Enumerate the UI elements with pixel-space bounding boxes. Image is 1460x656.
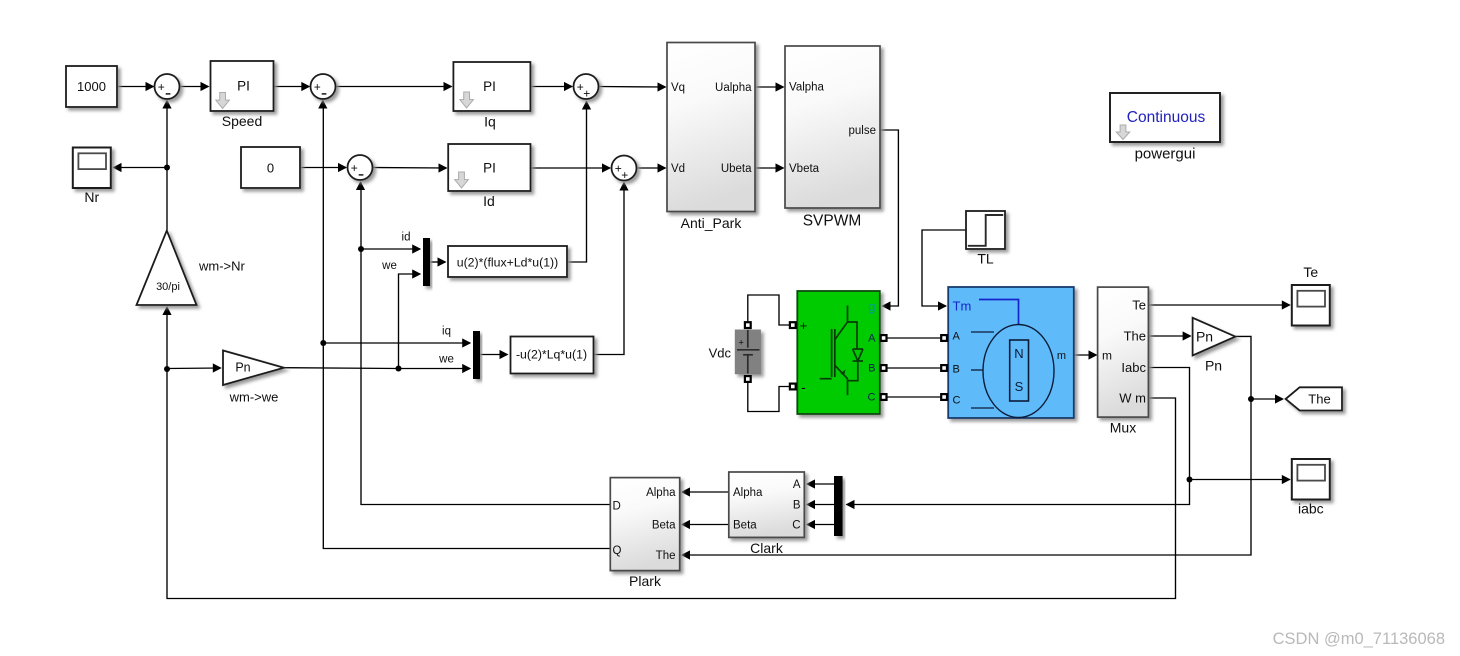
svg-text:0: 0 <box>267 161 274 176</box>
svg-text:PI: PI <box>237 79 250 94</box>
svg-text:Valpha: Valpha <box>789 82 825 94</box>
svg-text:Plark: Plark <box>629 573 662 589</box>
svg-text:Id: Id <box>483 193 495 209</box>
svg-text:Iq: Iq <box>484 114 496 130</box>
svg-text:PI: PI <box>483 79 496 94</box>
svg-text:The: The <box>1308 392 1330 407</box>
svg-text:u(2)*(flux+Ld*u(1)): u(2)*(flux+Ld*u(1)) <box>457 256 559 270</box>
svg-text:m: m <box>1057 350 1066 362</box>
svg-text:Alpha: Alpha <box>733 487 763 499</box>
svg-text:C: C <box>953 395 961 407</box>
svg-text:powergui: powergui <box>1135 146 1196 163</box>
svg-text:W m: W m <box>1119 391 1146 406</box>
svg-text:we: we <box>381 260 397 272</box>
svg-text:Pn: Pn <box>1196 329 1213 345</box>
svg-text:-u(2)*Lq*u(1): -u(2)*Lq*u(1) <box>516 348 587 362</box>
svg-text:Ualpha: Ualpha <box>715 82 752 94</box>
svg-text:iabc: iabc <box>1298 501 1324 517</box>
svg-text:C: C <box>792 520 800 532</box>
svg-text:Nr: Nr <box>84 189 99 205</box>
svg-text:Q: Q <box>613 545 622 557</box>
svg-text:Te: Te <box>1132 298 1146 313</box>
svg-text:A: A <box>868 333 876 345</box>
svg-text:id: id <box>402 232 411 244</box>
svg-text:A: A <box>953 331 961 343</box>
svg-text:D: D <box>613 501 621 513</box>
svg-text:N: N <box>1014 346 1023 361</box>
svg-text:The: The <box>1124 329 1146 344</box>
svg-text:PI: PI <box>483 161 496 176</box>
svg-text:+: + <box>314 80 321 94</box>
svg-text:Vbeta: Vbeta <box>789 163 820 175</box>
svg-text:Clark: Clark <box>750 540 784 556</box>
svg-text:iq: iq <box>442 326 451 338</box>
svg-text:Ubeta: Ubeta <box>721 163 752 175</box>
svg-text:Anti_Park: Anti_Park <box>681 215 743 231</box>
svg-text:Vd: Vd <box>671 163 685 175</box>
svg-text:-: - <box>801 379 806 395</box>
svg-text:Mux: Mux <box>1110 420 1136 436</box>
svg-text:TL: TL <box>977 251 994 267</box>
svg-text:30/pi: 30/pi <box>156 281 180 293</box>
svg-text:B: B <box>953 364 960 376</box>
svg-text:Speed: Speed <box>222 113 262 129</box>
svg-text:Iabc: Iabc <box>1121 360 1146 375</box>
svg-text:+: + <box>800 318 808 333</box>
svg-text:Te: Te <box>1303 264 1318 280</box>
svg-text:Alpha: Alpha <box>646 487 676 499</box>
svg-text:A: A <box>793 479 801 491</box>
svg-text:1000: 1000 <box>77 79 106 94</box>
svg-text:g: g <box>868 299 875 314</box>
svg-text:SVPWM: SVPWM <box>803 213 862 230</box>
svg-text:Beta: Beta <box>652 520 676 532</box>
svg-text:m: m <box>1102 349 1112 363</box>
svg-text:+: + <box>583 87 590 101</box>
svg-text:wm->we: wm->we <box>229 390 279 405</box>
svg-text:B: B <box>868 363 875 375</box>
svg-text:+: + <box>158 80 165 94</box>
svg-text:+: + <box>621 168 628 182</box>
svg-text:CSDN @m0_71136068: CSDN @m0_71136068 <box>1273 630 1445 648</box>
svg-text:wm->Nr: wm->Nr <box>198 259 246 274</box>
svg-text:+: + <box>351 161 358 175</box>
svg-text:Continuous: Continuous <box>1127 109 1206 126</box>
svg-text:C: C <box>868 392 876 404</box>
svg-text:B: B <box>793 500 801 512</box>
svg-text:Tm: Tm <box>953 299 972 314</box>
svg-text:we: we <box>438 354 454 366</box>
svg-text:The: The <box>656 550 676 562</box>
svg-text:Beta: Beta <box>733 520 757 532</box>
svg-text:Pn: Pn <box>235 361 250 375</box>
svg-text:Pn: Pn <box>1205 358 1222 374</box>
svg-text:S: S <box>1015 379 1024 394</box>
svg-text:+: + <box>738 338 744 349</box>
svg-text:Vq: Vq <box>671 82 685 94</box>
svg-text:Vdc: Vdc <box>709 346 732 361</box>
svg-text:pulse: pulse <box>849 125 877 137</box>
